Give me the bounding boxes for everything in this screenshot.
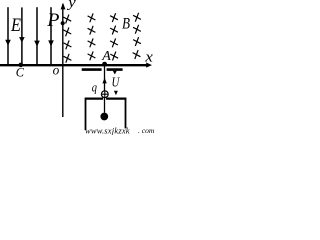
capacitor left plate [82,68,102,71]
svg-text:x: x [144,49,153,65]
svg-text:U: U [112,74,121,89]
svg-text:www.sxjkzxk: www.sxjkzxk [85,126,130,135]
svg-text:. com: . com [138,126,154,135]
E field line 3 [34,7,40,64]
box top edge left segment [85,97,103,99]
B field cross r3c2 [88,38,96,47]
E field line 4 [48,7,54,64]
label q [92,81,97,95]
B field cross r3c1 [64,40,72,49]
svg-text:y: y [66,0,77,11]
B field cross r2c4 [133,25,141,34]
label E [10,14,21,35]
box top edge right segment [106,97,126,99]
y axis label [66,0,77,11]
B field cross r3c4 [133,37,141,46]
svg-text:o: o [53,62,60,77]
E field line 1 [5,7,11,64]
box right wall [125,98,127,129]
B field cross r1c1 [63,15,71,24]
string wire [104,66,106,113]
arrow below U [114,91,118,96]
y axis [61,3,66,117]
svg-text:q: q [92,81,97,95]
B field cross r1c3 [110,13,118,22]
label C [16,65,25,79]
B field cross r4c1 [64,54,72,63]
charge q plus symbol [101,91,108,98]
label B [122,16,130,33]
up arrowhead on string [102,78,106,84]
B field cross r2c2 [88,26,96,35]
B field cross r1c4 [133,13,141,22]
B field cross r2c1 [63,27,71,36]
B field cross r2c3 [110,26,118,35]
B field cross r4c2 [88,51,96,60]
B field cross r4c3 [110,52,118,61]
E field line 2 [19,7,25,64]
svg-text:C: C [16,65,25,79]
label P [46,11,59,31]
svg-text:B: B [122,16,130,33]
point A dot [102,62,107,67]
label U [112,74,121,89]
svg-text:A: A [101,49,111,64]
point P dot [61,21,65,25]
arrow under right plate [113,71,117,75]
label A [101,49,111,64]
B field cross r3c3 [110,38,118,47]
box left wall [85,98,87,131]
capacitor right plate [107,68,123,71]
origin label o [53,62,60,77]
svg-text:P: P [46,11,59,31]
point C dot [19,63,24,68]
ball inside box [100,113,108,121]
B field cross r4c4 [133,50,141,59]
x axis label [144,49,153,65]
svg-text:E: E [10,14,21,35]
B field cross r1c2 [88,13,96,22]
x axis [0,63,152,68]
